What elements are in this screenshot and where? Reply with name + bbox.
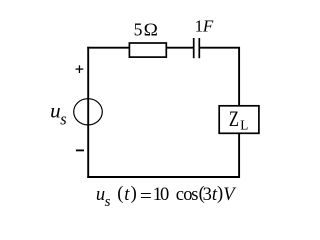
- capacitor C1 plate right: [198, 38, 200, 58]
- wire: bottom segment: [87, 176, 240, 178]
- resistor value label: 5: [134, 20, 143, 40]
- svg-text:Z: Z: [229, 106, 239, 131]
- svg-text:s: s: [60, 109, 66, 128]
- resistor value label: ohm symbol: [144, 20, 158, 39]
- capacitor value label 1F: [195, 17, 214, 36]
- load label subscript L: [240, 118, 248, 133]
- svg-text:L: L: [240, 118, 248, 133]
- load label Z: [229, 106, 239, 131]
- svg-text:5: 5: [134, 20, 143, 40]
- svg-text:=: =: [140, 186, 152, 207]
- svg-text:Ω: Ω: [144, 20, 158, 39]
- polarity plus sign: [76, 65, 84, 73]
- svg-text:us(t)10cos(3t)V: us(t)10cos(3t)V: [96, 184, 237, 210]
- wire: left side (through source): [87, 47, 89, 178]
- wire: capacitor to top-right corner: [199, 47, 239, 49]
- equation u_s(t) = 10 cos(3t) V: [96, 184, 237, 210]
- wire: right side upper (corner down to ZL box): [238, 47, 240, 106]
- wire: top-left segment (corner to resistor): [87, 47, 129, 49]
- load impedance ZL box: [219, 106, 259, 134]
- source label u_s: [50, 98, 67, 128]
- svg-text:u: u: [50, 98, 61, 122]
- capacitor C1 plate left: [193, 38, 195, 58]
- polarity minus sign: [76, 149, 84, 151]
- wire: right side lower (ZL box to bottom corner): [238, 134, 240, 178]
- wire: resistor to capacitor: [166, 47, 194, 49]
- svg-text:1F: 1F: [195, 17, 214, 36]
- resistor R1 (5 ohm) box: [129, 43, 166, 57]
- voltage source us (circle): [74, 99, 103, 125]
